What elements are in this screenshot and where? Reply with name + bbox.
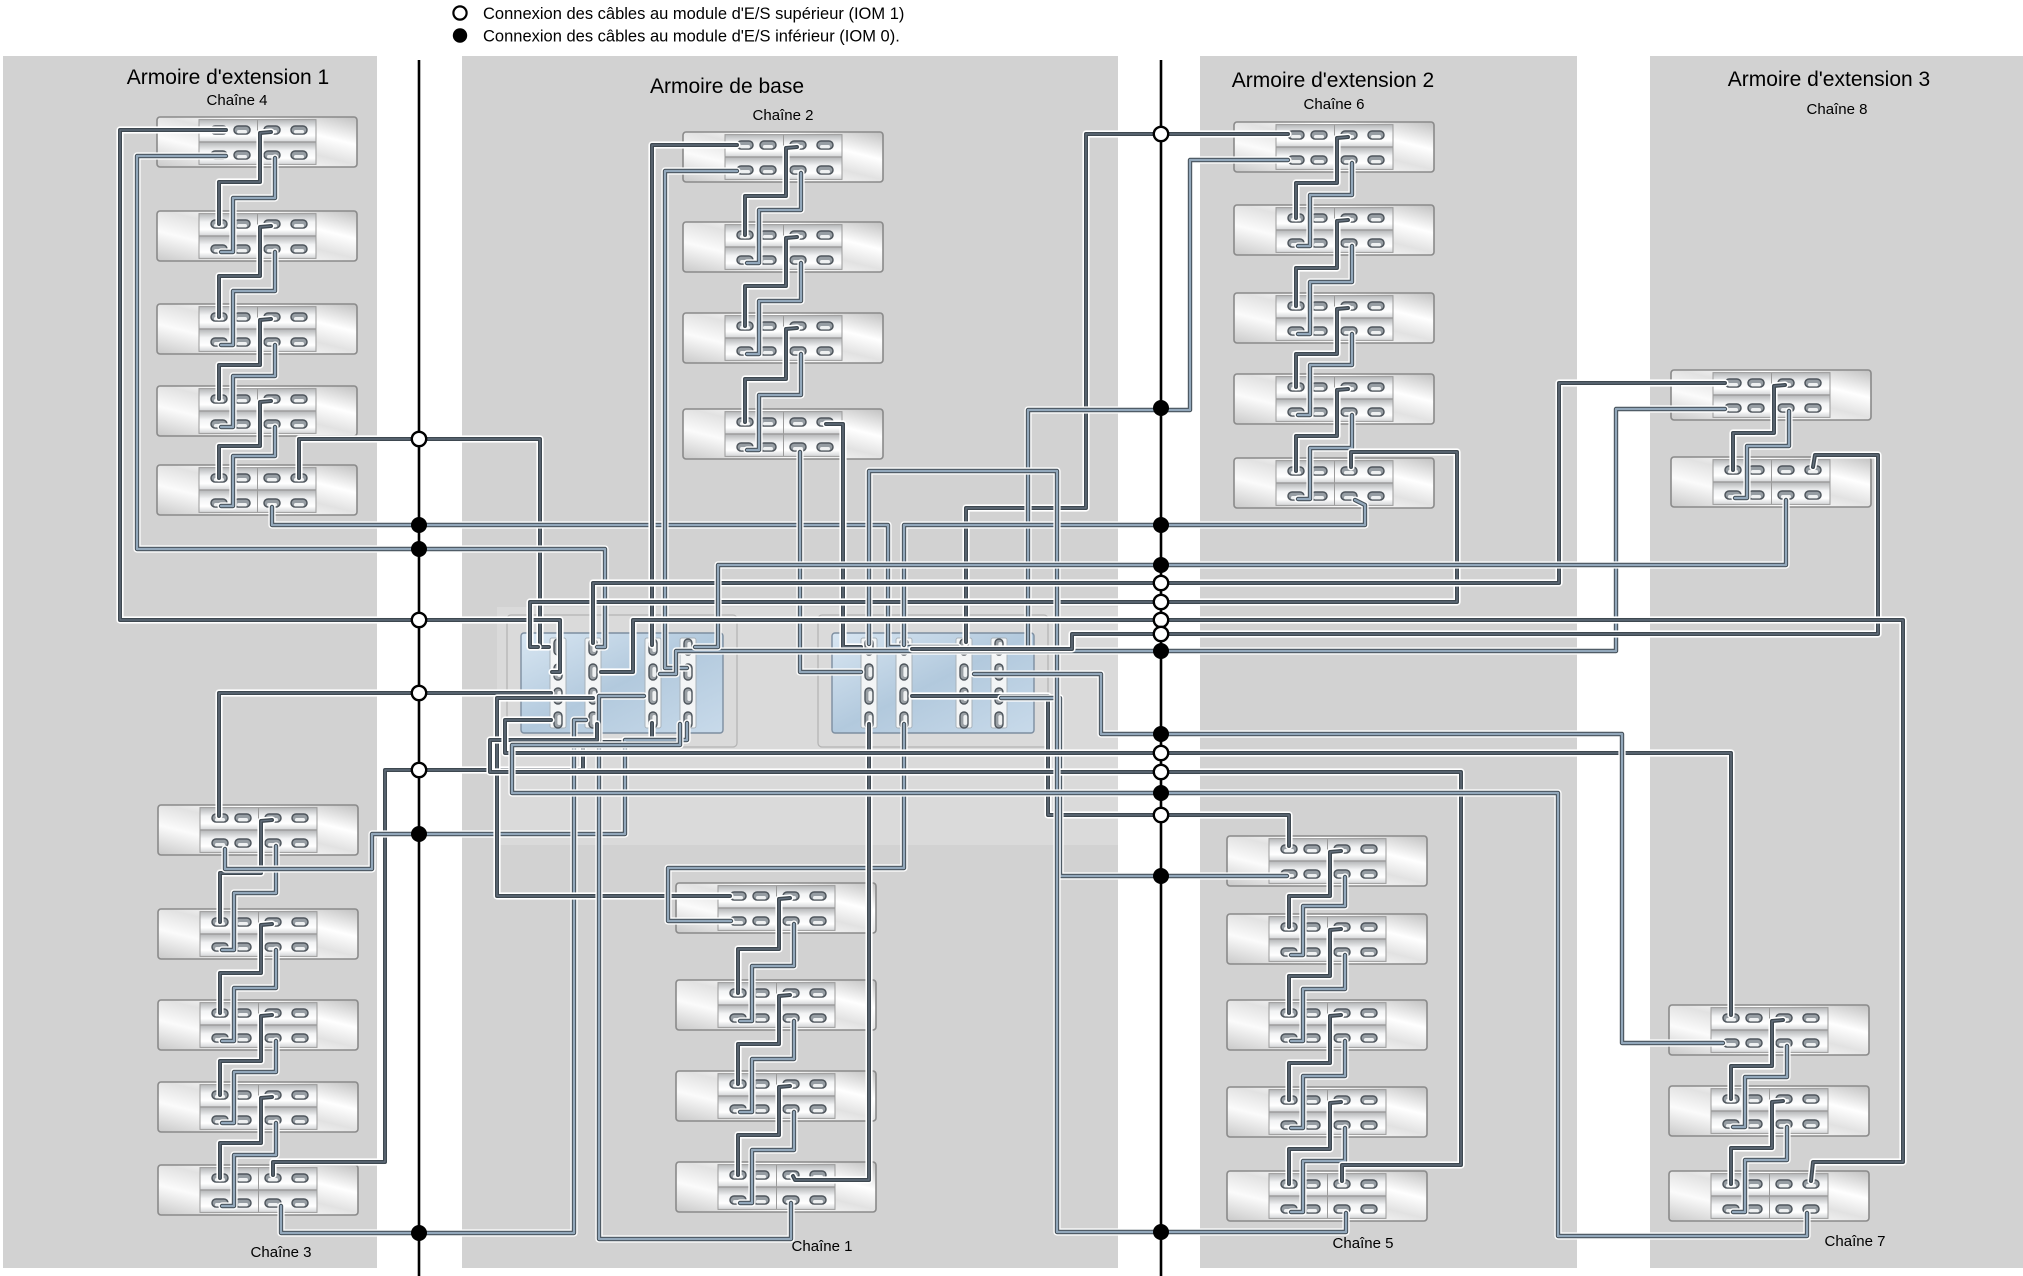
node on right boundary at y=734 (IOM0) — [1153, 726, 1169, 742]
wire chain4 shelf2 IOM1 to shelf3 — [219, 226, 271, 317]
wire chain2 shelf2 IOM0 to shelf3 — [747, 263, 801, 354]
rack boundary line right — [1160, 60, 1163, 1276]
wire chain1 shelf1 IOM1 to shelf2 — [738, 898, 790, 993]
wire controller to chain6 shelf1 IOM1 (node 134) — [966, 134, 1288, 642]
disk shelf chain6-2 — [1234, 205, 1434, 255]
wire controller to chain7 shelf1 IOM0 (node 734) — [974, 674, 1723, 1043]
wire controller to chain5 shelf1 IOM0 (node 876) — [1001, 698, 1287, 876]
disk shelf chain7-2 — [1669, 1086, 1869, 1136]
svg-text:Chaîne 2: Chaîne 2 — [753, 107, 814, 124]
disk shelf chain2-3 — [683, 313, 883, 363]
disk shelf chain1-1 — [676, 883, 876, 933]
node on right boundary at y=651 (IOM0) — [1153, 643, 1169, 659]
node on right boundary at y=876 (IOM0) — [1153, 868, 1169, 884]
disk shelf chain6-1 — [1234, 122, 1434, 172]
wire chain1 shelf3 IOM0 to shelf4 — [740, 1112, 794, 1203]
wire chain4 shelf4 IOM1 to shelf5 — [219, 401, 271, 478]
wire chain4 shelf3 IOM0 to shelf4 — [221, 345, 275, 427]
wire chain1 shelf1 IOM0 to shelf2 — [740, 924, 794, 1021]
node on right boundary at y=620 (IOM1) — [1154, 613, 1168, 627]
node on right boundary at y=753 (IOM1) — [1154, 746, 1168, 760]
disk shelf chain6-3 — [1234, 293, 1434, 343]
rack panel: Armoire d'extension 3 — [1650, 56, 2023, 1268]
node on right boundary at y=793 (IOM0) — [1153, 785, 1169, 801]
wire chain2 shelf4 IOM1 to controller — [826, 424, 861, 647]
wire chain6 shelf4 IOM0 to shelf5 — [1298, 415, 1352, 499]
disk shelf chain3-1 — [158, 805, 358, 855]
wire chain4 shelf5 IOM0 to controller (node 525) — [272, 507, 958, 647]
disk shelf chain4-3 — [157, 304, 357, 354]
wire chain3 shelf2 IOM1 to shelf3 — [220, 924, 272, 1013]
svg-text:Armoire d'extension 1: Armoire d'extension 1 — [127, 66, 329, 89]
wire chain2 shelf1 IOM1 to shelf2 — [745, 147, 797, 235]
wire chain4 shelf3 IOM1 to shelf4 — [219, 319, 271, 399]
disk shelf chain7-1 — [1669, 1005, 1869, 1055]
disk shelf chain7-3 — [1669, 1171, 1869, 1221]
wire chain6 shelf5 IOM1 to controller (node 602) — [530, 452, 1457, 647]
wire controller to chain3 shelf1 IOM0 (node 834) — [225, 723, 687, 869]
wire chain4 shelf1 IOM1 to controller (node 620) — [120, 130, 560, 672]
svg-text:Armoire de base: Armoire de base — [650, 75, 804, 98]
wire chain3 shelf5 IOM0 to controller (node 1233) — [281, 720, 586, 1233]
wire chain1 shelf4 IOM0 to controller — [599, 696, 791, 1239]
node on right boundary at y=134 (IOM1) — [1154, 127, 1168, 141]
controller 1 — [507, 615, 737, 747]
wire chain2 shelf2 IOM1 to shelf3 — [745, 237, 797, 326]
disk shelf chain4-1 — [157, 117, 357, 167]
controller 2 — [818, 615, 1048, 747]
wire controller to chain1 shelf4 IOM1 — [793, 724, 869, 1180]
wire chain6 shelf4 IOM1 to shelf5 — [1296, 389, 1348, 471]
wire controller to chain5 shelf5 IOM1 (node 772) — [490, 724, 1461, 1181]
rack panel: Armoire d'extension 2 — [1200, 56, 1577, 1268]
rack panel: Armoire d'extension 1 — [3, 56, 377, 1268]
wire controller to chain1 shelf1 IOM1 — [497, 698, 730, 896]
disk shelf chain5-5 — [1227, 1171, 1427, 1221]
wire controller to chain3 shelf5 IOM1 (node 770) — [273, 723, 652, 1175]
node on right boundary at y=1232 (IOM0) — [1153, 1224, 1169, 1240]
wire controller to chain3 shelf1 IOM1 (node 693) — [219, 693, 551, 816]
node on right boundary at y=565 (IOM0) — [1153, 557, 1169, 573]
disk shelf chain2-1 — [683, 132, 883, 182]
wire chain5 shelf3 IOM0 to shelf4 — [1291, 1041, 1345, 1128]
node on right boundary at y=634 (IOM1) — [1154, 627, 1168, 641]
wire chain2 shelf1 IOM0 to shelf2 — [747, 173, 801, 263]
wire controller to chain1 shelf1 IOM0 — [668, 724, 904, 921]
wire chain3 shelf1 IOM1 to shelf2 — [220, 820, 272, 922]
disk shelf chain3-3 — [158, 1000, 358, 1050]
wire chain3 shelf1 IOM0 to shelf2 — [222, 846, 276, 950]
node on right boundary at y=772 (IOM1) — [1154, 765, 1168, 779]
disk shelf chain8-1 — [1671, 370, 1871, 420]
wire chain5 shelf3 IOM1 to shelf4 — [1289, 1015, 1341, 1100]
node on left boundary at y=620 (IOM1) — [412, 613, 426, 627]
node on left boundary at y=770 (IOM1) — [412, 763, 426, 777]
disk shelf chain2-2 — [683, 222, 883, 272]
wire controller to chain7 shelf1 IOM1 (node 753) — [505, 720, 1731, 1015]
wire chain7 shelf1 IOM0 to shelf2 — [1733, 1046, 1787, 1127]
disk shelf chain3-4 — [158, 1082, 358, 1132]
disk shelf chain8-2 — [1671, 457, 1871, 507]
svg-text:Connexion des câbles au module: Connexion des câbles au module d'E/S sup… — [483, 5, 904, 23]
wire chain3 shelf3 IOM0 to shelf4 — [222, 1041, 276, 1123]
wire chain8 shelf1 IOM1 to shelf2 — [1733, 385, 1785, 470]
wire chain8 shelf1 IOM0 to shelf2 — [1735, 411, 1789, 498]
wire controller to chain5 shelf5 IOM0 (node 1232) — [869, 471, 1346, 1232]
wire controller to chain7 shelf3 IOM0 (node 793) — [512, 724, 1807, 1236]
node on left boundary at y=1233 (IOM0) — [411, 1225, 427, 1241]
wire controller to chain8 shelf2 IOM1 (node 634) — [912, 455, 1878, 649]
wire chain6 shelf3 IOM1 to shelf4 — [1296, 308, 1348, 387]
disk shelf chain2-4 — [683, 409, 883, 459]
wire chain5 shelf4 IOM0 to shelf5 — [1291, 1128, 1345, 1212]
disk shelf chain4-4 — [157, 386, 357, 436]
wire chain5 shelf2 IOM1 to shelf3 — [1289, 929, 1341, 1013]
rack boundary line left — [418, 60, 421, 1276]
wire chain4 shelf1 IOM0 to controller (node 549) — [137, 156, 605, 647]
node on right boundary at y=815 (IOM1) — [1154, 808, 1168, 822]
wire chain2 shelf3 IOM1 to shelf4 — [745, 328, 797, 422]
wire chain6 shelf2 IOM1 to shelf3 — [1296, 220, 1348, 306]
node on left boundary at y=439 (IOM1) — [412, 432, 426, 446]
node on right boundary at y=525 (IOM0) — [1153, 517, 1169, 533]
disk shelf chain1-3 — [676, 1071, 876, 1121]
svg-text:Chaîne 6: Chaîne 6 — [1304, 96, 1365, 113]
wire chain1 shelf3 IOM1 to shelf4 — [738, 1086, 790, 1175]
wire chain7 shelf2 IOM1 to shelf3 — [1731, 1101, 1783, 1184]
svg-text:Chaîne 8: Chaîne 8 — [1807, 101, 1868, 118]
wire chain6 shelf1 IOM0 to shelf2 — [1298, 163, 1352, 246]
wire chain4 shelf1 IOM1 to shelf2 — [219, 132, 271, 224]
node on left boundary at y=549 (IOM0) — [411, 541, 427, 557]
disk shelf chain4-5 — [157, 465, 357, 515]
disk shelf chain6-4 — [1234, 374, 1434, 424]
wire chain4 shelf4 IOM0 to shelf5 — [221, 427, 275, 506]
wire controller to chain5 shelf1 IOM1 (node 815) — [912, 696, 1289, 846]
wire controller to chain8 shelf1 IOM0 (node 651) — [660, 409, 1725, 674]
wire chain5 shelf1 IOM0 to shelf2 — [1291, 877, 1345, 955]
node on left boundary at y=525 (IOM0) — [411, 517, 427, 533]
disk shelf chain6-5 — [1234, 458, 1434, 508]
wire chain4 shelf2 IOM0 to shelf3 — [221, 252, 275, 345]
node on left boundary at y=834 (IOM0) — [411, 826, 427, 842]
disk shelf chain5-3 — [1227, 1000, 1427, 1050]
wire chain3 shelf3 IOM1 to shelf4 — [220, 1015, 272, 1095]
wire controller to chain2 shelf1 IOM0 — [665, 171, 737, 668]
wire chain7 shelf1 IOM1 to shelf2 — [1731, 1020, 1783, 1099]
disk shelf chain5-4 — [1227, 1087, 1427, 1137]
svg-text:Chaîne 7: Chaîne 7 — [1825, 1233, 1886, 1250]
legend symbol IOM 1 (open circle) — [453, 6, 466, 19]
wire chain2 shelf4 IOM0 to controller — [800, 452, 861, 672]
wire chain3 shelf4 IOM1 to shelf5 — [220, 1097, 272, 1178]
wire chain6 shelf2 IOM0 to shelf3 — [1298, 246, 1352, 334]
wire chain5 shelf4 IOM1 to shelf5 — [1289, 1102, 1341, 1184]
svg-text:Armoire d'extension 3: Armoire d'extension 3 — [1728, 68, 1930, 91]
node on right boundary at y=583 (IOM1) — [1154, 576, 1168, 590]
wire controller to chain7 shelf3 IOM1 (node 620) — [601, 620, 1903, 1181]
disk shelf chain1-4 — [676, 1162, 876, 1212]
disk shelf chain3-2 — [158, 909, 358, 959]
wire chain2 shelf3 IOM0 to shelf4 — [747, 354, 801, 450]
wire controller to chain8 shelf1 IOM1 (node 583) — [593, 383, 1725, 643]
wire chain3 shelf2 IOM0 to shelf3 — [222, 950, 276, 1041]
wire controller to chain2 shelf1 IOM1 — [652, 145, 737, 645]
wire chain6 shelf3 IOM0 to shelf4 — [1298, 334, 1352, 415]
disk shelf chain5-1 — [1227, 836, 1427, 886]
wire chain4 shelf1 IOM0 to shelf2 — [221, 158, 275, 252]
wire controller to chain6 shelf1 IOM0 (node 408) — [1028, 160, 1288, 650]
wire chain5 shelf2 IOM0 to shelf3 — [1291, 955, 1345, 1041]
wire chain8 shelf2 IOM0 to controller (node 565) — [695, 500, 1786, 647]
wire chain7 shelf2 IOM0 to shelf3 — [1733, 1127, 1787, 1212]
node on right boundary at y=602 (IOM1) — [1154, 595, 1168, 609]
disk shelf chain1-2 — [676, 980, 876, 1030]
svg-text:Chaîne 3: Chaîne 3 — [251, 1244, 312, 1261]
wire chain6 shelf1 IOM1 to shelf2 — [1296, 137, 1348, 218]
wire chain1 shelf2 IOM1 to shelf3 — [738, 995, 790, 1084]
disk shelf chain3-5 — [158, 1165, 358, 1215]
node on right boundary at y=408 (IOM0) — [1153, 400, 1169, 416]
wire chain5 shelf1 IOM1 to shelf2 — [1289, 851, 1341, 927]
disk shelf chain4-2 — [157, 211, 357, 261]
controller enclosure background — [497, 607, 1118, 845]
wire chain6 shelf5 IOM0 to controller (node 525) — [904, 500, 1365, 645]
rack panel: Armoire de base — [462, 56, 1118, 1268]
node on left boundary at y=693 (IOM1) — [412, 686, 426, 700]
wire chain1 shelf2 IOM0 to shelf3 — [740, 1021, 794, 1112]
disk shelf chain5-2 — [1227, 914, 1427, 964]
svg-text:Chaîne 4: Chaîne 4 — [207, 92, 268, 109]
svg-text:Connexion des câbles au module: Connexion des câbles au module d'E/S inf… — [483, 28, 900, 46]
svg-text:Armoire d'extension 2: Armoire d'extension 2 — [1232, 69, 1434, 92]
wire chain4 shelf5 IOM1 to controller (node 439) — [299, 439, 549, 647]
svg-text:Chaîne 5: Chaîne 5 — [1333, 1235, 1394, 1252]
svg-text:Chaîne 1: Chaîne 1 — [792, 1238, 853, 1255]
legend symbol IOM 0 (filled circle) — [453, 28, 467, 42]
wire chain3 shelf4 IOM0 to shelf5 — [222, 1123, 276, 1206]
